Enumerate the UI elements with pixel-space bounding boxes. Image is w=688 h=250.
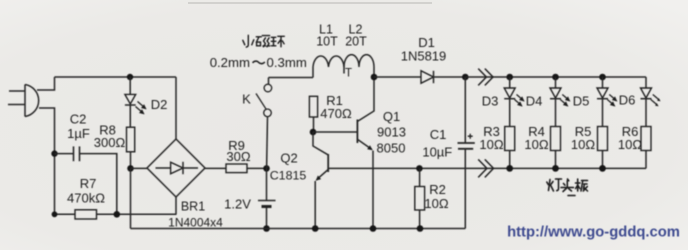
transistor Q1: [313, 77, 374, 229]
svg-text:9013: 9013: [377, 125, 406, 140]
faint scan edge line top: [188, 2, 432, 4]
svg-text:470kΩ: 470kΩ: [67, 190, 105, 205]
svg-text:D4: D4: [526, 94, 543, 109]
node junction lamp return D4: [552, 165, 559, 172]
svg-text:BR1: BR1: [181, 200, 205, 214]
label wire gauge 0.2mm~0.3mm: [210, 55, 307, 70]
svg-text:20T: 20T: [345, 34, 367, 48]
svg-text:D3: D3: [482, 94, 499, 109]
node junction R7 / C2 output: [114, 211, 121, 218]
resistor R7: [75, 210, 97, 219]
svg-text:D2: D2: [151, 97, 168, 112]
LED D3 string: [504, 77, 524, 168]
top rail right section: [465, 76, 646, 78]
capacitor C1: [458, 134, 475, 149]
LED D4 string: [550, 77, 570, 168]
switch K top feed wire: [269, 78, 314, 85]
wire R2 bottom lead: [419, 210, 421, 229]
node junction R2 bottom rail: [417, 225, 424, 232]
connector chevron mid: [478, 159, 493, 177]
node junction R2 top: [416, 165, 423, 172]
svg-text:Q1: Q1: [383, 109, 400, 124]
resistor R2: [415, 187, 425, 211]
resistor R1: [309, 96, 317, 117]
LED D6 string: [641, 88, 661, 168]
wire top rail down to bridge top corner: [175, 77, 177, 139]
switch K: [256, 84, 272, 116]
node junction R1 / Q1 base / Q2 collector: [310, 129, 317, 136]
node junction R9 / battery / switch: [263, 165, 270, 172]
wire lamp rail right corner down: [645, 77, 647, 88]
svg-text:10Ω: 10Ω: [424, 196, 448, 211]
svg-text:K: K: [242, 92, 251, 107]
svg-text:0.3mm: 0.3mm: [267, 55, 307, 70]
resistor R9: [226, 164, 247, 173]
svg-text:R7: R7: [80, 176, 97, 191]
svg-text:10T: 10T: [316, 34, 338, 48]
mid rail Q2 base to lamp board: [328, 167, 646, 169]
wire bridge left lead: [131, 167, 148, 169]
node junction left rail / C2: [51, 150, 57, 156]
inductor L1: [313, 56, 344, 77]
node junction lamp rail D3: [506, 74, 513, 81]
node junction lamp rail D4: [552, 74, 559, 81]
svg-text:T: T: [345, 68, 352, 80]
wire plug bottom prong down left rail: [39, 108, 55, 214]
svg-text:300Ω: 300Ω: [94, 135, 126, 150]
svg-text:1N4004x4: 1N4004x4: [168, 216, 223, 230]
node junction C1 top: [462, 74, 469, 81]
capacitor C2: [74, 146, 80, 161]
connector chevron top: [478, 69, 493, 86]
wire D2 cathode to R8: [129, 105, 131, 127]
node junction top rail / D2: [127, 74, 133, 80]
transistor Q2: [313, 132, 328, 229]
wire bridge bottom stub: [175, 197, 177, 214]
wire plug top prong to top rail: [37, 77, 55, 90]
resistor R8: [127, 127, 135, 152]
node tap T stub: [343, 67, 345, 74]
svg-text:C2: C2: [70, 112, 87, 127]
svg-text:1N5819: 1N5819: [401, 48, 447, 63]
svg-text:10Ω: 10Ω: [571, 137, 595, 152]
node junction L2 / Q1 collector / D1: [371, 74, 378, 81]
wire C2 left lead: [55, 153, 74, 155]
wire bridge right to R9: [205, 167, 226, 169]
node junction lamp rail D5: [599, 74, 606, 81]
wire vertical to bottom rail: [130, 168, 132, 228]
wire R8 to bridge node: [130, 152, 132, 169]
wire battery bottom to rail: [266, 208, 268, 229]
LED D5 string: [597, 77, 617, 168]
wire top rail left: [55, 76, 177, 78]
wire R2 top lead: [419, 168, 421, 186]
svg-text:C1815: C1815: [270, 169, 307, 183]
svg-text:R2: R2: [429, 182, 446, 197]
node junction bridge AC left: [127, 165, 134, 172]
svg-text:10µF: 10µF: [422, 144, 452, 159]
svg-text:D6: D6: [619, 93, 636, 108]
AC plug P1: [8, 85, 39, 117]
svg-text:10Ω: 10Ω: [479, 137, 503, 152]
node junction Q2 emitter bottom rail: [312, 225, 319, 232]
svg-text:1.2V: 1.2V: [224, 196, 251, 211]
wire R7 row: [55, 213, 177, 215]
node corner left rail R7: [52, 211, 58, 217]
svg-text:470Ω: 470Ω: [320, 106, 352, 121]
wire battery top lead: [266, 168, 268, 200]
svg-text:http://www.go-gddq.com: http://www.go-gddq.com: [507, 225, 680, 241]
svg-text:10Ω: 10Ω: [618, 137, 642, 152]
svg-text:10Ω: 10Ω: [524, 137, 548, 152]
node junction lamp return D5: [599, 165, 606, 172]
inductor L2: [344, 55, 374, 77]
bottom rail: [131, 228, 466, 230]
label small magnetic ring 小磁环: [243, 35, 284, 47]
label lamp head board 灯头板: [547, 179, 588, 196]
LED D2: [125, 94, 147, 114]
wire R9 right lead: [247, 167, 267, 169]
svg-text:30Ω: 30Ω: [226, 149, 250, 164]
bridge rectifier BR1: [147, 139, 205, 197]
node junction battery bottom rail: [263, 225, 270, 232]
svg-text:8050: 8050: [377, 140, 406, 155]
diode D1 1N5819: [374, 71, 465, 83]
wire C1 top lead: [464, 77, 466, 143]
node junction Q1 emitter bottom rail: [370, 225, 377, 232]
wire R1 bottom to base node: [313, 117, 315, 132]
svg-text:1µF: 1µF: [67, 126, 90, 141]
wire C2 right lead to node: [80, 154, 117, 215]
node junction lamp return D3: [506, 165, 513, 172]
wire D2 anode: [129, 77, 131, 94]
svg-text:Q2: Q2: [280, 151, 297, 166]
battery BT1 1.2V: [258, 201, 276, 207]
svg-text:D5: D5: [573, 94, 590, 109]
wire switch to battery node: [266, 117, 269, 169]
wire C1 bottom to rail corner: [464, 149, 466, 229]
svg-text:0.2mm: 0.2mm: [210, 55, 250, 70]
svg-text:C1: C1: [430, 127, 447, 142]
